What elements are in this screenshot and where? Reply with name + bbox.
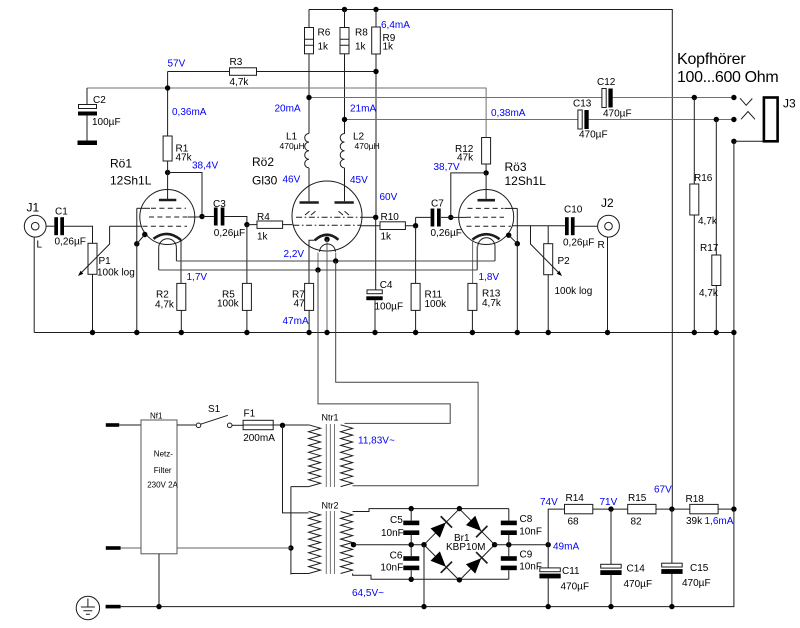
wire 74V riser <box>548 509 564 545</box>
winding Ntr2 secondary <box>341 512 353 574</box>
core Ntr2 <box>326 511 334 574</box>
node rail C11 <box>546 604 551 609</box>
node Gl30 heater upper <box>333 258 338 263</box>
diode Br1 top-left <box>430 516 452 538</box>
svg-text:6,4mA: 6,4mA <box>381 20 410 31</box>
tube Ro3 12Sh1L envelope <box>459 190 514 245</box>
svg-text:470µF: 470µF <box>579 130 608 141</box>
capacitor C3 <box>202 217 247 225</box>
node jack tip <box>731 95 736 100</box>
wire primary feed to Ntr2 <box>283 425 309 513</box>
bridge Br1 diamond <box>424 509 495 581</box>
node bridge minus <box>421 542 426 547</box>
svg-text:C5: C5 <box>390 515 403 526</box>
svg-text:49mA: 49mA <box>553 542 579 553</box>
resistor R18 <box>690 504 718 513</box>
wire Ntr2 primary bottom <box>291 573 309 575</box>
svg-text:Ntr1: Ntr1 <box>322 413 339 423</box>
svg-text:Nf1: Nf1 <box>150 412 163 421</box>
node R4 R5 junction <box>244 222 249 227</box>
capacitor C6 <box>410 545 412 580</box>
resistor R10 <box>361 225 416 227</box>
svg-text:46V: 46V <box>283 175 301 186</box>
node Gl30 heater lower <box>315 267 320 272</box>
wire heater drop to Ntr1 top <box>318 270 450 423</box>
svg-text:12Sh1L: 12Sh1L <box>110 174 152 188</box>
svg-text:R: R <box>598 240 605 251</box>
svg-text:10nF: 10nF <box>519 562 542 573</box>
wire Ro1 heater leads <box>159 248 177 270</box>
svg-text:4,7k: 4,7k <box>155 300 175 311</box>
svg-text:230V 2A: 230V 2A <box>147 481 178 490</box>
svg-text:0,26µF: 0,26µF <box>214 228 245 239</box>
capacitor C8 <box>508 509 510 545</box>
wire Ro2 heater leads <box>318 253 336 271</box>
wire P2 top <box>531 226 549 244</box>
jack tip contact <box>740 98 752 105</box>
wire Ro3 strap ground <box>509 235 518 332</box>
node L1 tap <box>306 95 311 100</box>
mains terminal N <box>106 546 121 550</box>
svg-text:R6: R6 <box>318 28 331 39</box>
svg-text:R3: R3 <box>230 57 243 68</box>
svg-text:82: 82 <box>631 517 643 528</box>
svg-text:100k: 100k <box>217 299 240 310</box>
jack ring contact <box>741 112 755 120</box>
switch S1 <box>196 423 201 428</box>
inductor L2 <box>340 134 344 168</box>
svg-text:C8: C8 <box>520 514 533 525</box>
fuse F1 <box>243 420 273 429</box>
svg-text:1k: 1k <box>381 232 393 243</box>
svg-text:R15: R15 <box>628 493 647 504</box>
svg-text:Filter: Filter <box>154 466 172 475</box>
potentiometer P1 <box>88 243 97 274</box>
svg-text:1,7V: 1,7V <box>187 272 208 283</box>
svg-text:Rö2: Rö2 <box>252 155 274 169</box>
svg-text:C1: C1 <box>55 207 68 218</box>
heater Ro1 <box>159 239 177 248</box>
capacitor C13 <box>578 110 582 129</box>
resistor R3 <box>230 68 257 76</box>
resistor R6 <box>308 10 310 134</box>
capacitor C10 <box>548 225 598 228</box>
node jack ring <box>731 117 736 122</box>
svg-text:4,7k: 4,7k <box>230 77 250 88</box>
node jack sleeve <box>731 139 736 144</box>
svg-text:0,26µF: 0,26µF <box>431 228 462 239</box>
resistor R16 <box>693 98 695 333</box>
svg-text:4,7k: 4,7k <box>482 298 502 309</box>
resistor R12 <box>482 138 491 165</box>
node Ro2 cathode <box>324 237 329 242</box>
svg-text:1k: 1k <box>383 42 395 53</box>
svg-text:R14: R14 <box>566 493 585 504</box>
svg-text:Kopfhörer: Kopfhörer <box>677 51 746 68</box>
svg-text:R8: R8 <box>355 28 368 39</box>
grid g1 Ro1 <box>110 225 142 227</box>
node bus J2 <box>605 330 610 335</box>
wire Ntr1 primary bottom <box>291 487 309 575</box>
node 71V <box>608 506 613 511</box>
node Ntr2 center tap <box>351 542 356 547</box>
node bus R17 <box>714 330 719 335</box>
anode a2 Ro2 <box>344 168 346 201</box>
svg-text:R10: R10 <box>381 212 400 223</box>
svg-text:57V: 57V <box>168 59 186 70</box>
wire cathode strap diagonal <box>137 235 145 333</box>
wire 57V node <box>168 71 376 73</box>
wire P1 bottom <box>92 274 94 332</box>
svg-text:100...600 Ohm: 100...600 Ohm <box>677 69 778 86</box>
svg-text:F1: F1 <box>244 409 256 420</box>
wire center tap <box>354 544 425 546</box>
node rail C14 <box>608 604 613 609</box>
node bus R13 <box>470 330 475 335</box>
node rail C15 <box>669 604 674 609</box>
resistor R9 <box>375 10 377 218</box>
node Ro1 cathode lead <box>142 232 147 237</box>
svg-text:P2: P2 <box>558 256 571 267</box>
node bus P1 <box>90 330 95 335</box>
resistor R11 <box>415 226 417 333</box>
cathode Ro2 <box>315 235 339 241</box>
wire g3 strap Ro3 <box>516 208 518 243</box>
diode Br1 bottom-right <box>465 552 487 574</box>
grid g2 Ro3 <box>451 216 466 218</box>
svg-text:470µH: 470µH <box>280 141 305 151</box>
svg-text:11,83V~: 11,83V~ <box>358 436 395 447</box>
winding Ntr1 secondary <box>341 425 353 487</box>
winding Ntr2 primary <box>309 512 321 574</box>
wire J1 to C1 <box>46 225 54 227</box>
svg-text:0,38mA: 0,38mA <box>491 108 526 119</box>
resistor R7 <box>308 310 310 332</box>
wire Nf1 to S1 <box>177 424 196 426</box>
node R10 R11 junction <box>413 223 418 228</box>
node neutral <box>288 545 293 550</box>
svg-text:C13: C13 <box>573 99 592 110</box>
node R16 tap <box>692 95 697 100</box>
svg-text:S1: S1 <box>208 404 221 415</box>
svg-text:470µF: 470µF <box>603 109 632 120</box>
svg-text:60V: 60V <box>380 192 398 203</box>
svg-text:470µH: 470µH <box>355 141 380 151</box>
svg-text:71V: 71V <box>600 497 618 508</box>
wire 57V to R1 and R12 <box>167 72 169 137</box>
node bridge plus <box>492 542 497 547</box>
wire Ro2 cathode to R7 <box>309 240 315 283</box>
earth symbol <box>76 596 99 619</box>
anode Ro3 <box>485 173 487 200</box>
resistor R15 <box>628 504 656 513</box>
svg-text:4,7k: 4,7k <box>699 288 719 299</box>
node bottom wire C6 <box>409 577 414 582</box>
svg-text:470µF: 470µF <box>561 582 590 593</box>
grid g3 Ro1 <box>137 207 150 209</box>
svg-text:20mA: 20mA <box>275 104 301 115</box>
wire bottom rail <box>121 509 734 606</box>
filter Nf1 <box>141 420 177 554</box>
wire ground bus <box>34 332 734 334</box>
wire g3 strap <box>136 208 138 244</box>
svg-text:38,7V: 38,7V <box>434 162 460 173</box>
svg-text:100k: 100k <box>425 299 448 310</box>
svg-text:R17: R17 <box>700 243 719 254</box>
svg-text:47: 47 <box>294 299 306 310</box>
node R18 out <box>731 506 736 511</box>
svg-text:Rö1: Rö1 <box>110 157 132 171</box>
node bus C4 <box>372 330 377 335</box>
grid g1 Ro2 <box>293 224 360 226</box>
capacitor C5 <box>410 509 412 545</box>
resistor R8 <box>344 10 346 135</box>
svg-text:C7: C7 <box>431 199 444 210</box>
svg-text:1,6mA: 1,6mA <box>705 516 734 527</box>
svg-text:Ntr2: Ntr2 <box>322 500 339 510</box>
grid g1 Ro3 <box>467 225 512 227</box>
wire neutral Nf1 <box>177 547 291 549</box>
svg-text:10nF: 10nF <box>519 527 542 538</box>
svg-text:R18: R18 <box>686 494 705 505</box>
connector J3 <box>764 98 778 142</box>
svg-text:74V: 74V <box>540 497 558 508</box>
svg-text:KBP10M: KBP10M <box>446 542 485 553</box>
svg-text:12Sh1L: 12Sh1L <box>505 174 547 188</box>
capacitor C11 <box>547 545 549 607</box>
svg-text:100k log: 100k log <box>555 286 593 297</box>
svg-text:100µF: 100µF <box>92 117 121 128</box>
node 67V <box>669 506 674 511</box>
node rail R9 <box>373 7 378 12</box>
core Ntr1 <box>326 424 334 487</box>
wire heater supply lower <box>159 269 478 271</box>
node Ro3 anode 38,7V <box>483 170 488 175</box>
svg-text:1,8V: 1,8V <box>479 272 500 283</box>
svg-text:470µF: 470µF <box>682 578 711 589</box>
potentiometer P2 <box>544 244 553 275</box>
svg-text:C6: C6 <box>390 551 403 562</box>
node plus C8C9 <box>506 542 511 547</box>
node rail Nf1 <box>156 604 161 609</box>
diode Br1 top-right <box>465 515 487 537</box>
mains terminal L <box>106 423 119 427</box>
grid marks Ro2 <box>305 211 349 215</box>
svg-text:C2: C2 <box>93 95 106 106</box>
node primary feed <box>280 423 285 428</box>
grid g3 Ro3 <box>505 207 518 209</box>
anode Ro1 <box>167 161 169 200</box>
resistor R5 <box>246 225 248 333</box>
svg-text:1k: 1k <box>355 42 367 53</box>
node 49mA <box>546 542 551 547</box>
anode a1 Ro2 <box>308 168 310 201</box>
svg-text:38,4V: 38,4V <box>192 161 218 172</box>
node rail bridge minus <box>421 604 426 609</box>
node g2 60V <box>373 215 378 220</box>
svg-text:Gl30: Gl30 <box>252 174 278 188</box>
wire left output 38,4V tap <box>309 97 734 99</box>
node Ro1 anode 38,4V <box>165 170 170 175</box>
svg-text:0,36mA: 0,36mA <box>172 107 207 118</box>
wire Ntr2 secondary bottom <box>353 574 509 580</box>
capacitor C15 <box>671 509 673 606</box>
mains terminal PE <box>106 605 121 609</box>
node center tap C5C6 <box>409 542 414 547</box>
svg-text:21mA: 21mA <box>350 104 376 115</box>
wire heater drop to Ntr1 bottom <box>336 261 478 486</box>
node C2 branch <box>165 85 170 90</box>
node bus R5 <box>244 330 249 335</box>
wire bridge minus ground <box>423 545 425 607</box>
winding Ntr1 primary <box>309 425 321 487</box>
wire S1 to F1 <box>232 424 243 426</box>
ground bar C2 <box>78 141 98 146</box>
node bus R11 <box>413 330 418 335</box>
resistor R13 <box>471 310 473 332</box>
heater Ro2 <box>320 244 336 252</box>
svg-text:200mA: 200mA <box>243 433 275 444</box>
wire Ro3 heater leads <box>477 246 495 270</box>
node C3 in <box>199 214 204 219</box>
svg-text:C3: C3 <box>213 199 226 210</box>
svg-text:2,2V: 2,2V <box>284 249 305 260</box>
svg-text:67V: 67V <box>654 485 672 496</box>
resistor R2 <box>180 310 182 332</box>
svg-text:C11: C11 <box>562 566 580 577</box>
svg-text:J1: J1 <box>27 201 40 215</box>
svg-text:0,26µF: 0,26µF <box>563 238 594 249</box>
svg-text:R4: R4 <box>257 212 270 223</box>
node bus Ro3 strap <box>515 330 520 335</box>
wire bridge plus out <box>495 544 549 546</box>
wire sleeve ground drop <box>733 141 735 509</box>
resistor R4 <box>247 224 292 226</box>
heater Ro3 <box>478 238 495 247</box>
wire Ro3 anode to C7 <box>451 173 486 218</box>
node bus R16 <box>692 330 697 335</box>
svg-text:47mA: 47mA <box>283 316 309 327</box>
wire jack sleeve <box>734 140 764 142</box>
node top bus bridge <box>457 506 462 511</box>
node rail R8 <box>342 7 347 12</box>
node Ro1 cathode strap <box>134 241 139 246</box>
capacitor C9 <box>508 545 510 580</box>
node bus Ro2 cathode <box>324 330 329 335</box>
svg-text:45V: 45V <box>350 175 368 186</box>
capacitor C7 <box>416 217 451 225</box>
svg-text:470µF: 470µF <box>624 579 653 590</box>
node bus Ro1 strap <box>134 330 139 335</box>
tube Ro2 Gl30 envelope <box>292 181 362 251</box>
cathode Ro3 <box>473 234 500 239</box>
wire C1 to P1 <box>64 226 93 243</box>
wire Ro1 anode to C3 <box>168 173 202 217</box>
svg-text:J3: J3 <box>783 97 796 111</box>
svg-text:C4: C4 <box>380 280 393 291</box>
resistor R17 <box>715 120 717 333</box>
svg-text:C10: C10 <box>564 205 583 216</box>
svg-text:C14: C14 <box>627 564 646 575</box>
svg-text:100k log: 100k log <box>97 268 135 279</box>
svg-text:68: 68 <box>568 517 580 528</box>
node bottom wire bridge <box>457 577 462 582</box>
wire Ro3 cathode to R13 <box>472 240 474 284</box>
wire J2 ground <box>607 237 609 332</box>
wire Ro2 cathode ground <box>326 239 328 332</box>
svg-text:64,5V~: 64,5V~ <box>352 588 384 599</box>
svg-text:L: L <box>37 240 43 251</box>
capacitor C1 <box>54 217 58 235</box>
resistor R1 <box>163 136 172 161</box>
node Ro3 cathode lead <box>506 233 511 238</box>
node bus R7 <box>306 330 311 335</box>
grid g2 Ro2 <box>296 216 360 218</box>
resistor R14 <box>565 504 593 513</box>
node Ro3 cathode strap <box>515 241 520 246</box>
wire Ntr2 secondary top <box>353 509 509 512</box>
svg-text:C15: C15 <box>690 563 709 574</box>
cathode Ro1 <box>154 234 182 240</box>
svg-text:1k: 1k <box>257 232 269 243</box>
wire right output tap <box>345 119 734 121</box>
wire P2 bottom <box>547 275 549 333</box>
wire J1 ground <box>33 237 35 332</box>
grid g2 Ro1 <box>149 216 187 218</box>
node R17 tap <box>714 117 719 122</box>
wire Nf1 bottom <box>158 554 160 607</box>
svg-text:C9: C9 <box>520 550 533 561</box>
svg-text:0,26µF: 0,26µF <box>55 237 86 248</box>
capacitor C4 <box>374 217 377 332</box>
node top bus C5 <box>409 506 414 511</box>
svg-text:100µF: 100µF <box>375 302 404 313</box>
svg-text:Netz-: Netz- <box>154 450 173 459</box>
svg-text:47k: 47k <box>176 153 193 164</box>
node bus R2 <box>179 330 184 335</box>
svg-text:J2: J2 <box>601 196 614 210</box>
wire heater supply upper <box>176 260 495 262</box>
svg-text:R16: R16 <box>694 173 713 184</box>
wire top supply rail <box>309 10 673 509</box>
node C7 out <box>448 215 453 220</box>
svg-text:10nF: 10nF <box>380 563 403 574</box>
svg-text:P1: P1 <box>99 256 112 267</box>
inductor L1 <box>305 134 309 168</box>
svg-text:4,7k: 4,7k <box>698 216 718 227</box>
node bus sleeve <box>731 330 736 335</box>
diode Br1 bottom-left <box>430 550 452 572</box>
wire Ro1 cathode to R2 <box>180 240 182 283</box>
svg-text:Rö3: Rö3 <box>505 160 527 174</box>
tube Ro1 12Sh1L envelope <box>140 190 195 245</box>
svg-text:1k: 1k <box>318 42 330 53</box>
node L2 tap <box>342 117 347 122</box>
wire F1 to Ntr1 <box>273 424 308 426</box>
capacitor C12 <box>602 89 606 108</box>
node R9 57V <box>373 69 378 74</box>
svg-text:39k: 39k <box>686 516 703 527</box>
capacitor C2 <box>86 88 88 141</box>
svg-text:10nF: 10nF <box>381 528 404 539</box>
capacitor C14 <box>610 509 612 606</box>
node bus P2 <box>546 330 551 335</box>
svg-text:C12: C12 <box>597 77 616 88</box>
